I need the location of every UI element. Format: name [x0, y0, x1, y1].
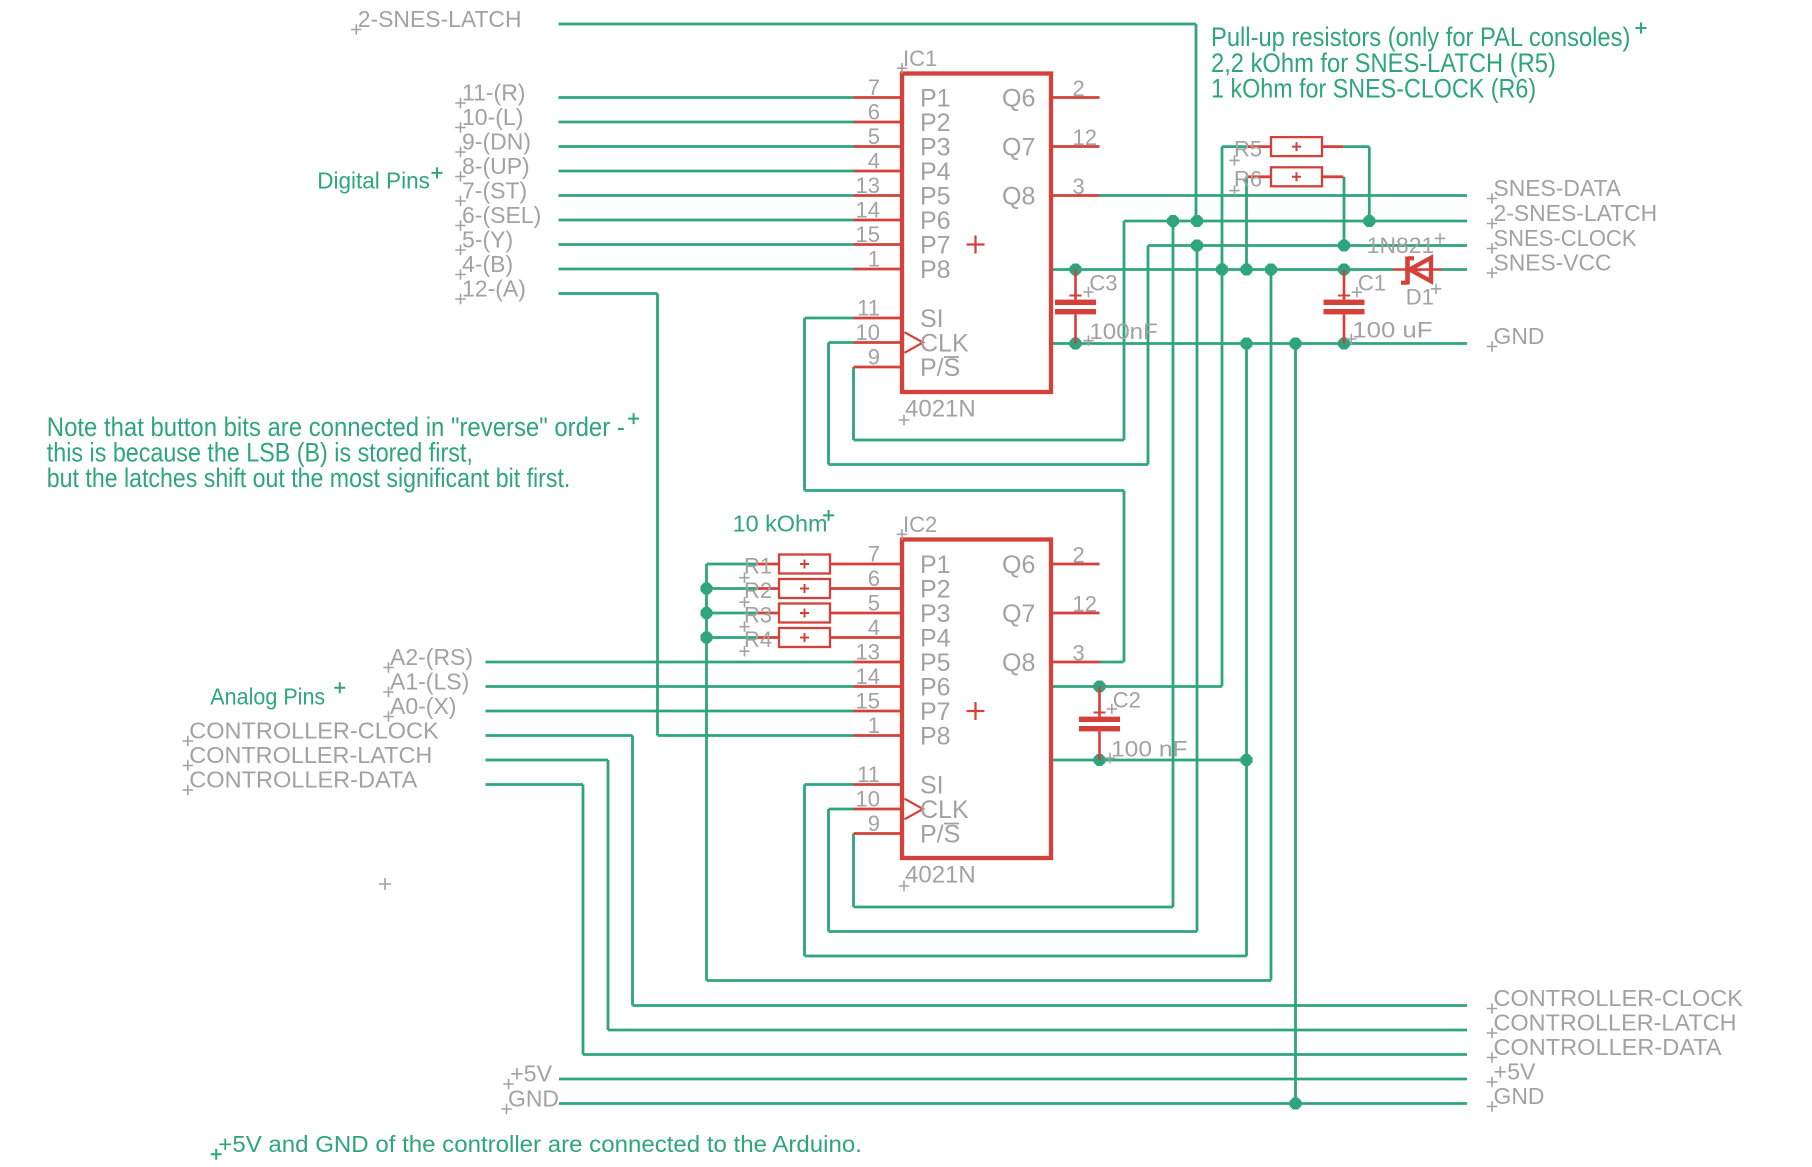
- wire A1-(LS) to IC2 P6: [486, 685, 854, 688]
- capacitor C2: [1079, 687, 1120, 761]
- pin 7 (P1) stub of IC2: [854, 542, 903, 567]
- svg-text:2-SNES-LATCH: 2-SNES-LATCH: [358, 6, 522, 32]
- svg-text:5: 5: [868, 591, 880, 616]
- pin 9 (PS) stub of IC2: [854, 811, 903, 836]
- net label 11-(R): [455, 80, 525, 109]
- svg-text:GND: GND: [1494, 323, 1545, 349]
- svg-text:6: 6: [868, 566, 880, 591]
- wire bottom GND bus: [559, 1102, 1467, 1105]
- junction dot bottom GND: [1290, 1098, 1302, 1110]
- wire R2 left link: [707, 587, 757, 590]
- resistor R6: [1248, 167, 1322, 186]
- svg-text:1: 1: [868, 247, 880, 272]
- capacitor C2 value label: [1105, 737, 1188, 764]
- svg-text:3: 3: [1073, 174, 1085, 199]
- svg-text:1 kOhm for SNES-CLOCK (R6): 1 kOhm for SNES-CLOCK (R6): [1211, 73, 1536, 103]
- svg-text:6: 6: [868, 100, 880, 125]
- svg-text:1: 1: [868, 713, 880, 738]
- wire net SNES-CLOCK horizontal bus: [1148, 244, 1467, 247]
- svg-text:10: 10: [856, 320, 880, 345]
- junction dots GND net: [1070, 338, 1351, 350]
- wire R5 left pin to VCC bus: [1051, 147, 1246, 687]
- capacitor C1 label: [1352, 271, 1386, 298]
- svg-text:100nF: 100nF: [1089, 319, 1157, 344]
- resistor R4 right pin: [830, 636, 854, 639]
- pin 3 (Q8) stub of IC1: [1051, 174, 1100, 199]
- svg-text:10 kOhm: 10 kOhm: [733, 510, 828, 536]
- pin 6 (P2) stub of IC2: [854, 566, 903, 591]
- svg-text:7: 7: [868, 542, 880, 567]
- svg-text:CONTROLLER-DATA: CONTROLLER-DATA: [1494, 1034, 1723, 1060]
- svg-text:2: 2: [1073, 543, 1085, 568]
- pin 13 (P5) stub of IC1: [854, 173, 903, 198]
- svg-text:5-(Y): 5-(Y): [462, 227, 513, 253]
- sheet origin cross: [379, 878, 391, 890]
- wire CONTROLLER-DATA left to bottom bus: [486, 785, 584, 1055]
- annotation text: Note that button bits are connected in ": [47, 412, 639, 442]
- svg-text:2-SNES-LATCH: 2-SNES-LATCH: [1494, 200, 1658, 226]
- net label A0-(X): [383, 693, 456, 722]
- resistor R3 right pin: [830, 612, 854, 615]
- svg-text:R1: R1: [744, 554, 772, 579]
- net label SNES-CLOCK: [1487, 225, 1637, 254]
- svg-text:4: 4: [868, 149, 880, 174]
- svg-text:13: 13: [856, 173, 880, 198]
- net label 9-(DN): [455, 129, 531, 158]
- svg-text:Q7: Q7: [1002, 600, 1035, 628]
- net label 2-SNES-LATCH: [351, 6, 521, 35]
- net label 7-(ST): [455, 178, 527, 207]
- pin 5 (P3) stub of IC2: [854, 591, 903, 616]
- svg-text:IC2: IC2: [903, 512, 937, 537]
- value label 4021N of IC2: [899, 862, 976, 892]
- svg-text:13: 13: [856, 640, 880, 665]
- wire net SNES-VCC horizontal bus: [1051, 268, 1467, 271]
- svg-text:100 uF: 100 uF: [1352, 318, 1432, 343]
- resistor R5: [1248, 137, 1322, 156]
- net label A1-(LS): [383, 669, 469, 698]
- svg-text:GND: GND: [1494, 1083, 1545, 1109]
- annotation text: Digital Pins: [317, 167, 442, 193]
- diode D1 1N821 zener: [1393, 257, 1442, 285]
- pin 7 (P1) stub of IC1: [854, 75, 903, 100]
- capacitor C3 label: [1083, 271, 1117, 298]
- svg-text:SNES-CLOCK: SNES-CLOCK: [1494, 225, 1638, 251]
- net label 5-(Y): [455, 227, 513, 256]
- svg-text:CONTROLLER-CLOCK: CONTROLLER-CLOCK: [1494, 985, 1744, 1011]
- pin 1 (P8) stub of IC2: [854, 713, 903, 738]
- svg-text:R5: R5: [1234, 136, 1262, 161]
- resistor R3 label: [739, 603, 772, 632]
- wire digital pin to IC1 P4: [559, 170, 854, 173]
- wire IC2 P/S to 2-SNES-LATCH bus: [854, 221, 1174, 907]
- reference label IC1: [897, 46, 937, 74]
- junction dots 2-SNES-LATCH net: [1167, 215, 1375, 227]
- net label 12-(A): [455, 276, 526, 305]
- wire R6 left pin to VCC bus: [1245, 177, 1248, 270]
- svg-text:11-(R): 11-(R): [462, 80, 525, 106]
- wire 2-SNES-LATCH from top label to latch bus: [559, 24, 1197, 221]
- wire bottom CONTROLLER-LATCH bus: [608, 1029, 1467, 1032]
- svg-text:C2: C2: [1113, 688, 1141, 713]
- svg-text:R4: R4: [744, 627, 772, 652]
- net label CONTROLLER-CLOCK: [183, 718, 440, 747]
- wire IC2 SI to GND bus: [805, 344, 1247, 957]
- resistor R1: [756, 555, 830, 574]
- resistor R1 label: [739, 554, 772, 583]
- pin 15 (P7) stub of IC1: [854, 222, 903, 247]
- svg-text:Q8: Q8: [1002, 183, 1035, 211]
- svg-text:R6: R6: [1234, 167, 1262, 192]
- junction dots C2 bottom row: [1094, 754, 1253, 766]
- svg-text:3: 3: [1073, 641, 1085, 666]
- svg-text:R2: R2: [744, 578, 772, 603]
- svg-text:P8: P8: [920, 723, 951, 751]
- svg-text:9: 9: [868, 811, 880, 836]
- svg-text:Q6: Q6: [1002, 551, 1035, 579]
- svg-text:GND: GND: [508, 1086, 559, 1112]
- pin 15 (P7) stub of IC2: [854, 689, 903, 714]
- wire bottom +5V bus: [559, 1078, 1467, 1081]
- capacitor C1 value label: [1346, 318, 1432, 345]
- svg-text:+5V: +5V: [510, 1061, 553, 1087]
- net label GND: [501, 1086, 559, 1115]
- wire digital pin to IC1 P7: [559, 243, 854, 246]
- resistor R6 right pin: [1322, 175, 1343, 178]
- wire net 2-SNES-LATCH horizontal bus: [1124, 220, 1467, 223]
- svg-text:Q7: Q7: [1002, 134, 1035, 162]
- svg-text:1N821: 1N821: [1367, 233, 1434, 258]
- svg-text:6-(SEL): 6-(SEL): [462, 202, 541, 228]
- net label CONTROLLER-CLOCK: [1487, 985, 1744, 1014]
- wire R1 left link: [707, 563, 757, 566]
- wire IC2 GND row (C2 bottom): [1051, 759, 1247, 762]
- net label SNES-VCC: [1487, 250, 1612, 279]
- wire digital pin to IC1 P8: [559, 268, 854, 271]
- pin 3 (Q8) stub of IC2: [1051, 641, 1100, 666]
- pin 2 (Q6) stub of IC2: [1051, 543, 1100, 568]
- svg-text:4-(B): 4-(B): [462, 251, 513, 277]
- net label +5V: [1487, 1059, 1536, 1088]
- svg-text:A1-(LS): A1-(LS): [390, 669, 469, 695]
- svg-text:12: 12: [1073, 125, 1097, 150]
- wire R4 left link: [707, 636, 757, 639]
- pin names of IC2: [920, 551, 1035, 849]
- annotation text: 1 kOhm for SNES-CLOCK (R6): [1211, 73, 1536, 103]
- svg-text:+5V: +5V: [1494, 1059, 1537, 1085]
- junction dot IC2 VDD / C2 top: [1094, 681, 1106, 693]
- net label CONTROLLER-LATCH: [183, 742, 433, 771]
- resistor R5 right pin: [1322, 145, 1343, 148]
- svg-text:12-(A): 12-(A): [462, 276, 526, 302]
- wire bottom CONTROLLER-CLOCK bus: [633, 1004, 1468, 1007]
- pin 12 (Q7) stub of IC1: [1051, 125, 1100, 150]
- wire 12-(A) to IC2 P8: [559, 294, 854, 736]
- pin 4 (P4) stub of IC1: [854, 149, 903, 174]
- wire A2-(RS) to IC2 P5: [486, 661, 854, 664]
- clock input triangle of IC2: [905, 799, 924, 820]
- svg-text:15: 15: [856, 222, 880, 247]
- svg-text:but the latches shift out the: but the latches shift out the most signi…: [47, 463, 571, 493]
- svg-text:P/S: P/S: [920, 354, 960, 382]
- svg-text:A0-(X): A0-(X): [390, 693, 456, 719]
- net label 2-SNES-LATCH: [1487, 200, 1657, 229]
- svg-text:A2-(RS): A2-(RS): [390, 644, 473, 670]
- wire digital pin to IC1 P2: [559, 121, 854, 124]
- svg-text:11: 11: [857, 296, 880, 321]
- net label 10-(L): [455, 104, 523, 133]
- annotation text: 2,2 kOhm for SNES-LATCH (R5): [1211, 48, 1556, 78]
- wire R5 right pin to 2-SNES-LATCH: [1343, 147, 1369, 221]
- capacitor C2 label: [1107, 688, 1141, 715]
- svg-text:2: 2: [1073, 76, 1085, 101]
- resistor R2 label: [739, 578, 772, 607]
- pin 12 (Q7) stub of IC2: [1051, 592, 1100, 617]
- net label CONTROLLER-LATCH: [1487, 1010, 1737, 1039]
- pin 14 (P6) stub of IC1: [854, 198, 903, 223]
- wire IC1 CLK to SNES-CLOCK bus: [829, 246, 1149, 465]
- pin 9 (PS) stub of IC1: [854, 345, 903, 370]
- svg-text:100 nF: 100 nF: [1111, 737, 1188, 762]
- svg-text:14: 14: [856, 664, 880, 689]
- pin 1 (P8) stub of IC1: [854, 247, 903, 272]
- wire net GND horizontal bus (top): [1051, 342, 1467, 345]
- wire digital pin to IC1 P5: [559, 194, 854, 197]
- annotation text: 10 kOhm: [733, 510, 835, 537]
- pin 11 (SI) stub of IC1: [854, 296, 903, 321]
- resistor R4: [756, 628, 830, 647]
- resistor R5 label: [1229, 136, 1262, 165]
- net label CONTROLLER-DATA: [1487, 1034, 1722, 1063]
- pin 10 (CLK) stub of IC2: [854, 787, 903, 812]
- wire R3 left link: [707, 612, 757, 615]
- svg-text:Digital Pins: Digital Pins: [317, 168, 430, 194]
- wire IC1 SI to IC2 Q8: [805, 318, 1125, 662]
- diode D1 value label 1N821: [1367, 233, 1445, 258]
- resistor R1 right pin: [830, 563, 854, 566]
- svg-text:CONTROLLER-CLOCK: CONTROLLER-CLOCK: [189, 718, 439, 744]
- net label SNES-DATA: [1487, 175, 1622, 204]
- svg-text:D1: D1: [1406, 285, 1434, 310]
- svg-text:8-(UP): 8-(UP): [462, 153, 530, 179]
- net label 4-(B): [455, 251, 513, 280]
- resistor R3: [756, 604, 830, 623]
- svg-text:CONTROLLER-LATCH: CONTROLLER-LATCH: [189, 742, 432, 768]
- wire IC1 P/S to 2-SNES-LATCH bus: [854, 221, 1125, 440]
- svg-text:P8: P8: [920, 256, 951, 284]
- wire CONTROLLER-CLOCK left to bottom bus: [486, 736, 633, 1006]
- net label GND: [1487, 1083, 1545, 1112]
- net label GND: [1487, 323, 1545, 352]
- svg-text:CONTROLLER-DATA: CONTROLLER-DATA: [189, 767, 418, 793]
- svg-text:9: 9: [868, 345, 880, 370]
- svg-text:4: 4: [868, 615, 880, 640]
- pin 6 (P2) stub of IC1: [854, 100, 903, 125]
- resistor R6 label: [1229, 167, 1262, 196]
- reference label IC2: [897, 512, 937, 540]
- svg-text:Analog Pins: Analog Pins: [210, 683, 325, 709]
- pin 10 (CLK) stub of IC1: [854, 320, 903, 345]
- wire pull-up common rail to SNES-VCC: [707, 270, 1272, 981]
- pin 5 (P3) stub of IC1: [854, 124, 903, 149]
- svg-text:12: 12: [1073, 592, 1097, 617]
- junction dots SNES-CLOCK net: [1191, 240, 1350, 252]
- net label CONTROLLER-DATA: [183, 767, 418, 796]
- wire IC2 CLK to SNES-CLOCK bus: [829, 246, 1198, 932]
- net label +5V: [503, 1061, 552, 1090]
- annotation text: Analog Pins: [210, 682, 345, 709]
- annotation text: +5V and GND of the controller are connec: [211, 1131, 862, 1160]
- annotation text: but the latches shift out the most signi: [47, 463, 571, 493]
- IC IC2 4021N body: [902, 540, 1051, 859]
- svg-text:C1: C1: [1358, 271, 1386, 296]
- svg-text:Q6: Q6: [1002, 85, 1035, 113]
- svg-text:C3: C3: [1089, 271, 1117, 296]
- net label A2-(RS): [383, 644, 473, 673]
- pin 13 (P5) stub of IC2: [854, 640, 903, 665]
- capacitor C1: [1324, 270, 1365, 344]
- diode D1 reference label: [1406, 284, 1441, 310]
- svg-text:11: 11: [857, 762, 880, 787]
- svg-text:4021N: 4021N: [905, 862, 976, 889]
- resistor R2 right pin: [830, 587, 854, 590]
- svg-text:9-(DN): 9-(DN): [462, 129, 531, 155]
- annotation text: this is because the LSB (B) is stored fi: [47, 438, 473, 468]
- wire CONTROLLER-LATCH left to bottom bus: [486, 760, 609, 1030]
- capacitor C3: [1055, 270, 1096, 344]
- svg-text:10-(L): 10-(L): [462, 104, 523, 130]
- svg-text:SNES-VCC: SNES-VCC: [1494, 250, 1612, 276]
- wire net SNES-DATA (IC1 Q8 to label): [1100, 194, 1468, 197]
- net label 6-(SEL): [455, 202, 541, 231]
- svg-text:Q8: Q8: [1002, 649, 1035, 677]
- net label 8-(UP): [455, 153, 529, 182]
- svg-text:IC1: IC1: [903, 46, 937, 71]
- svg-text:+5V and GND of the controller: +5V and GND of the controller are connec…: [218, 1131, 862, 1157]
- resistor R2: [756, 579, 830, 598]
- wire digital pin to IC1 P3: [559, 145, 854, 148]
- pin 14 (P6) stub of IC2: [854, 664, 903, 689]
- wire digital pin to IC1 P6: [559, 219, 854, 222]
- clock input triangle of IC1: [905, 332, 924, 353]
- capacitor C3 value label: [1083, 319, 1158, 346]
- pin 11 (SI) stub of IC2: [854, 762, 903, 787]
- annotation text: Pull-up resistors (only for PAL consoles: [1211, 22, 1647, 52]
- pin names of IC1: [920, 85, 1035, 383]
- svg-text:14: 14: [856, 198, 880, 223]
- pin 4 (P4) stub of IC2: [854, 615, 903, 640]
- wire GND bus vertical to bottom GND: [1294, 344, 1297, 1104]
- svg-text:R3: R3: [744, 603, 772, 628]
- junction dots SNES-VCC net: [1070, 264, 1351, 276]
- pin 2 (Q6) stub of IC1: [1051, 76, 1100, 101]
- svg-text:7: 7: [868, 75, 880, 100]
- wire A0-(X) to IC2 P7: [486, 710, 854, 713]
- resistor R4 label: [739, 627, 772, 656]
- svg-text:4021N: 4021N: [905, 396, 976, 423]
- wire digital pin to IC1 P1: [559, 96, 854, 99]
- svg-text:7-(ST): 7-(ST): [462, 178, 527, 204]
- IC IC1 4021N body: [902, 74, 1051, 393]
- wire R6 right pin to SNES-CLOCK: [1343, 177, 1346, 246]
- wire bottom CONTROLLER-DATA bus: [583, 1053, 1467, 1056]
- value label 4021N of IC1: [899, 396, 976, 426]
- junction dots pull-up rail R2 R3 R4: [701, 583, 713, 644]
- svg-text:10: 10: [856, 787, 880, 812]
- svg-text:P/S: P/S: [920, 821, 960, 849]
- svg-text:SNES-DATA: SNES-DATA: [1494, 175, 1622, 201]
- svg-text:15: 15: [856, 689, 880, 714]
- svg-text:5: 5: [868, 124, 880, 149]
- svg-text:CONTROLLER-LATCH: CONTROLLER-LATCH: [1494, 1010, 1737, 1036]
